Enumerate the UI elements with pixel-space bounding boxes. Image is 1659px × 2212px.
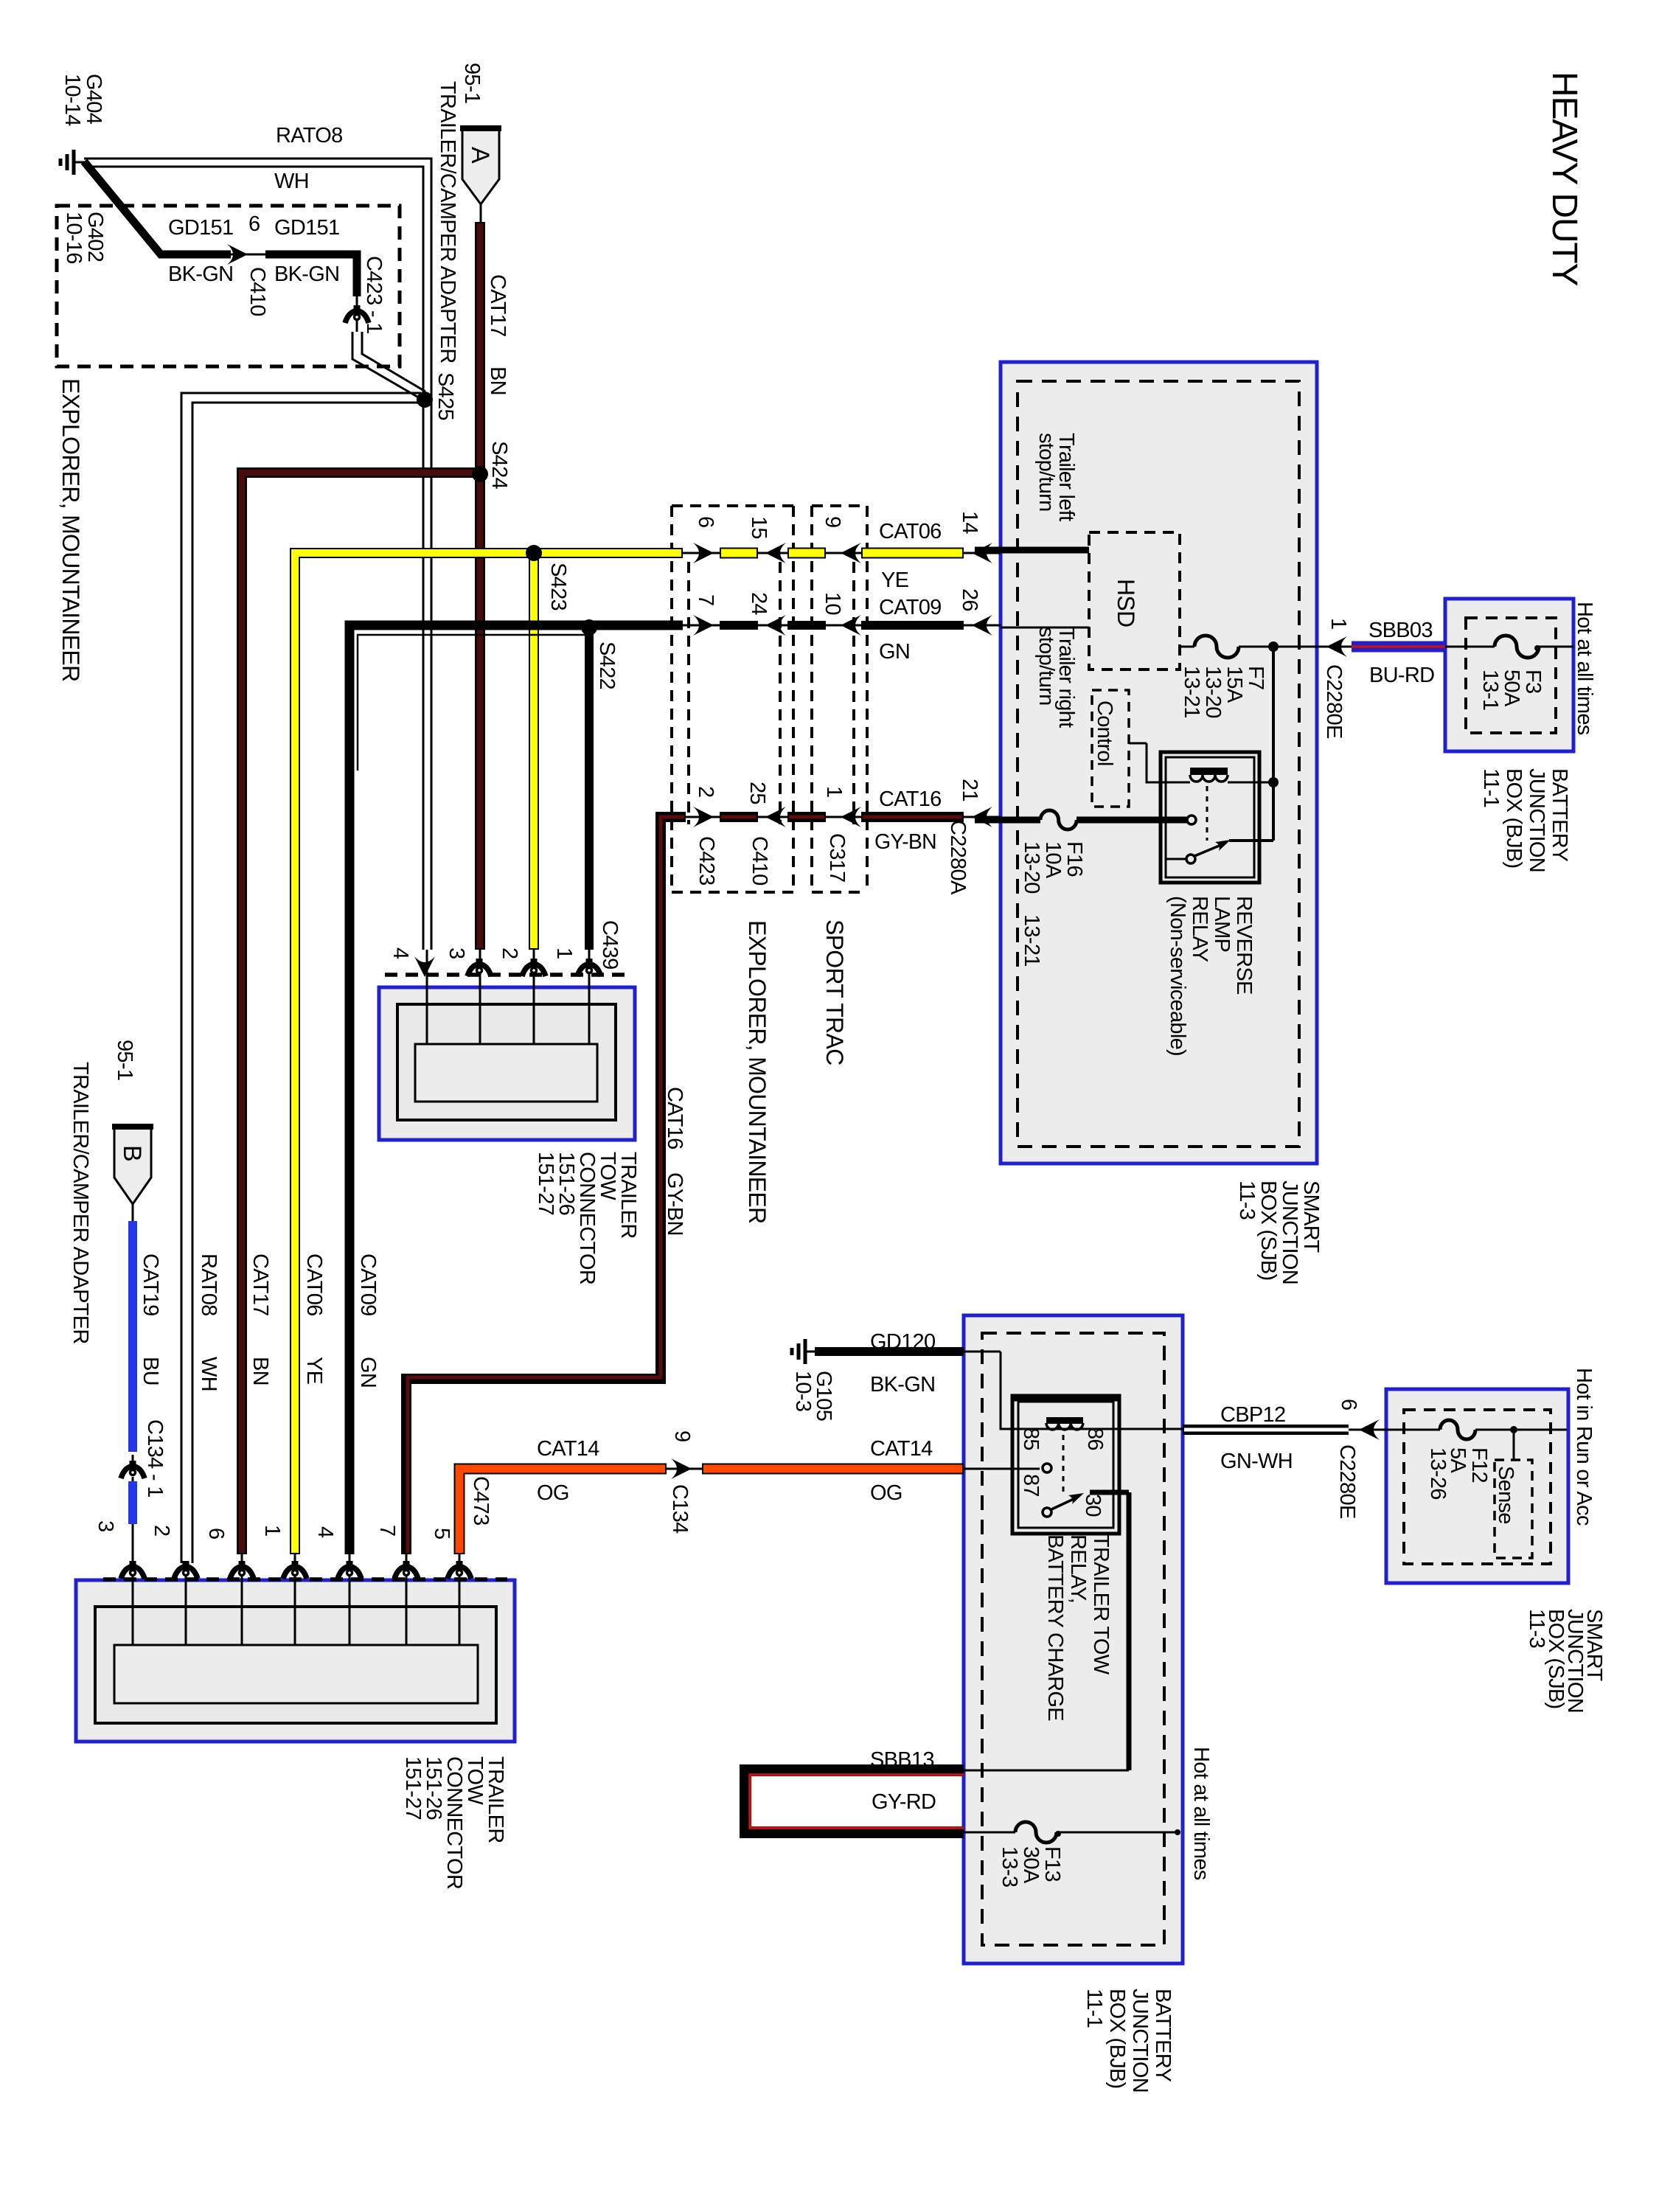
wire RAT08 WH branch from S425 to bottom pin 2 [181,393,422,1645]
svg-text:6: 6 [1337,1399,1360,1410]
wire to fuse F13 [964,1832,1178,1834]
svg-text:10A: 10A [1041,841,1065,879]
svg-text:5: 5 [430,1528,453,1539]
svg-text:S423: S423 [546,563,570,611]
svg-text:3: 3 [445,947,468,959]
svg-text:CAT14: CAT14 [870,1437,933,1461]
svg-text:G402: G402 [83,212,107,262]
wire CAT09 GN inline segments to SJB [683,625,1089,627]
svg-text:10-14: 10-14 [60,74,84,126]
svg-text:50A: 50A [1500,669,1523,707]
wire CAT06 YE horizontal and verticals [295,553,683,1645]
upper connector pin 2 hook [522,959,546,976]
svg-text:25: 25 [745,782,769,804]
wire CAT14 OG [459,1469,1040,1645]
svg-text:86: 86 [1083,1427,1107,1450]
fuse F7 15A [1194,636,1239,658]
svg-text:13-3: 13-3 [998,1846,1021,1887]
ground G404 [60,150,86,175]
svg-text:JUNCTION: JUNCTION [1128,1989,1152,2093]
trailer tow connector box (upper C439) [379,987,635,1140]
svg-text:BK-GN: BK-GN [168,262,233,286]
svg-text:GN: GN [356,1357,380,1388]
svg-text:F16: F16 [1062,841,1086,877]
svg-text:Control: Control [1093,700,1116,766]
svg-text:GY-BN: GY-BN [874,830,936,854]
svg-text:(Non-serviceable): (Non-serviceable) [1166,896,1189,1056]
SJB internal wiring F7 and bus [1129,647,1317,841]
svg-text:15A: 15A [1222,666,1246,703]
svg-text:10-3: 10-3 [791,1371,815,1411]
svg-text:6: 6 [248,212,260,236]
splice S424 [472,466,488,482]
svg-text:14: 14 [958,511,981,534]
junction node at F7 output [1268,641,1279,652]
svg-text:Hot at all times: Hot at all times [1189,1747,1213,1880]
svg-text:13-26: 13-26 [1426,1447,1450,1500]
splice S423 [526,545,542,561]
svg-text:C134: C134 [668,1484,692,1534]
svg-text:C317: C317 [825,833,849,883]
svg-text:151-27: 151-27 [401,1756,425,1820]
relay switch (battery charge) [1043,1435,1084,1517]
svg-text:F3: F3 [1521,669,1545,693]
svg-text:OG: OG [870,1481,902,1505]
wire CAT17 BN vertical from A to S424 to pin 3 [475,222,485,1044]
svg-text:BK-GN: BK-GN [274,262,339,286]
connector arrow GD151 C410 pin 6 [227,244,248,265]
svg-text:CAT16: CAT16 [879,787,942,811]
svg-text:Hot in Run or Acc: Hot in Run or Acc [1572,1368,1596,1526]
svg-text:REVERSE: REVERSE [1232,896,1256,995]
svg-text:B: B [118,1145,146,1161]
svg-text:2: 2 [150,1525,173,1536]
svg-text:EXPLORER, MOUNTAINEER: EXPLORER, MOUNTAINEER [744,920,771,1223]
trailer tow connector box (lower) [76,1580,515,1742]
svg-text:YE: YE [302,1357,326,1385]
wire CAT19 BU [128,1221,137,1645]
svg-text:S425: S425 [434,372,457,420]
svg-text:C439: C439 [598,920,622,970]
relay coil (reverse lamp) [1190,768,1228,782]
svg-text:YE: YE [881,568,909,592]
svg-text:EXPLORER, MOUNTAINEER: EXPLORER, MOUNTAINEER [58,378,84,681]
svg-text:C2280E: C2280E [1335,1444,1359,1519]
svg-text:stop/turn: stop/turn [1034,433,1058,512]
upper connector dashed pin line [385,973,633,977]
svg-text:87: 87 [1019,1474,1043,1497]
wire CBP12 GN-WH [1183,1425,1386,1435]
svg-text:S424: S424 [487,441,511,489]
svg-text:Hot at all times: Hot at all times [1573,602,1596,735]
svg-text:CBP12: CBP12 [1220,1403,1285,1427]
svg-text:RELAY: RELAY [1188,896,1211,962]
svg-text:95-1: 95-1 [460,63,484,103]
svg-text:24: 24 [747,592,771,615]
svg-text:13-1: 13-1 [1478,669,1502,710]
svg-text:13-20: 13-20 [1020,841,1043,894]
svg-text:F12: F12 [1467,1447,1491,1483]
svg-text:G404: G404 [82,74,105,125]
control dashed box [1092,690,1129,807]
svg-text:GD120: GD120 [870,1330,935,1354]
relay switch (reverse lamp) [1166,786,1231,863]
svg-text:BN: BN [486,366,509,395]
splice S425 [417,392,433,408]
svg-text:TRAILER/CAMPER ADAPTER: TRAILER/CAMPER ADAPTER [436,81,459,364]
arrow CBP12 pin 6 [1359,1419,1380,1440]
wire inside lower SJB with fuse F12 [1386,1430,1567,1460]
svg-text:F13: F13 [1040,1846,1064,1882]
svg-text:13-21: 13-21 [1180,666,1203,718]
smart junction box SJB (lower) [1386,1389,1568,1583]
wires from pins into upper connector [427,975,589,1044]
wires from pins into lower connector [133,1579,459,1645]
svg-text:SPORT TRAC: SPORT TRAC [821,919,848,1065]
svg-text:10-16: 10-16 [62,212,86,264]
trailer tow battery charge relay box [964,1315,1183,1964]
upper connector pin 3 hook [467,959,491,976]
HSD dashed box [1089,532,1180,669]
fuse F16 10A [1040,810,1077,829]
svg-text:LAMP: LAMP [1210,896,1234,952]
svg-text:BN: BN [248,1357,272,1385]
svg-text:CAT17: CAT17 [486,274,509,337]
svg-text:CAT06: CAT06 [879,520,942,543]
svg-text:JUNCTION: JUNCTION [1525,768,1548,872]
svg-text:C2280A: C2280A [946,820,970,895]
svg-text:BATTERY: BATTERY [1151,1989,1175,2082]
svg-text:2: 2 [694,786,717,797]
svg-text:CAT19: CAT19 [139,1253,162,1316]
svg-text:21: 21 [958,779,981,801]
svg-text:11-3: 11-3 [1235,1180,1259,1220]
inline connector arrows row CAT09 [693,615,714,636]
svg-text:GN-WH: GN-WH [1220,1450,1293,1473]
svg-text:CAT16: CAT16 [663,1087,686,1150]
svg-text:7: 7 [694,594,717,605]
wire relay 30 to SBB13 [964,1492,1129,1770]
svg-text:4: 4 [313,1526,337,1538]
svg-text:GY-RD: GY-RD [872,1790,936,1814]
svg-text:BOX (BJB): BOX (BJB) [1502,768,1526,869]
svg-text:26: 26 [958,588,981,611]
arrow SBB03 pin 1 [1326,636,1347,657]
svg-text:SBB03: SBB03 [1368,619,1433,642]
wire GD151 BK-GN [84,161,425,399]
svg-text:30A: 30A [1019,1846,1043,1884]
svg-text:13-20: 13-20 [1201,666,1225,718]
svg-text:SBB13: SBB13 [870,1748,934,1772]
inline connector dashed box C317 [812,506,867,892]
svg-text:RELAY,: RELAY, [1066,1534,1090,1603]
wire RAT08 WH from ground to S425 and pin 4 [84,159,431,1044]
svg-text:1: 1 [1326,618,1350,629]
svg-text:C423: C423 [695,836,718,886]
svg-text:GY-BN: GY-BN [663,1172,686,1236]
svg-text:BOX (SJB): BOX (SJB) [1256,1180,1280,1281]
svg-text:6: 6 [694,516,717,527]
svg-text:BOX (BJB): BOX (BJB) [1105,1989,1129,2089]
svg-text:C410: C410 [246,267,269,316]
wire CAT06 inside SJB to HSD [975,547,1089,554]
svg-text:TRAILER/CAMPER ADAPTER: TRAILER/CAMPER ADAPTER [69,1062,92,1344]
inline connector dashed box C423/C410 [672,506,793,892]
svg-text:BK-GN: BK-GN [870,1373,935,1397]
wire CAT16 GY-BN long path [406,817,686,1645]
fuse F12 5A [1440,1420,1475,1439]
svg-text:1: 1 [822,786,846,797]
lower connector dashed pin line [103,1577,507,1582]
svg-text:C423 - 1: C423 - 1 [362,256,386,334]
wire CAT09 GN horizontal and verticals [349,625,683,1645]
svg-text:13-21: 13-21 [1020,914,1043,967]
svg-text:WH: WH [197,1357,220,1391]
wire SBB13 GY-RD loop [745,1770,964,1832]
wire SBB03 BU-RD [1317,646,1445,648]
svg-text:BATTERY: BATTERY [1548,768,1571,862]
svg-text:BU: BU [139,1357,162,1385]
wire CAT16 inside SJB to F16 and relay [975,817,1189,824]
relay coil (battery charge) [1046,1417,1083,1430]
battery junction box BJB (upper) [1445,599,1573,751]
svg-text:Sense: Sense [1494,1466,1517,1524]
svg-text:11-1: 11-1 [1082,1989,1106,2028]
wire CAT16 GY-BN inline segments to SJB [686,816,1001,818]
svg-text:95-1: 95-1 [113,1040,136,1080]
wire CAT06 YE inline segments to SJB [683,552,1001,554]
relay battery charge box [1012,1396,1119,1534]
upper connector pin 4 arrow [414,956,435,977]
svg-text:30: 30 [1081,1494,1105,1517]
splice S422 [581,619,597,636]
svg-text:SMART: SMART [1299,1180,1323,1253]
wire CAT17 BN branch left to bottom pin 6 [242,473,480,1645]
svg-text:CAT09: CAT09 [356,1253,380,1316]
svg-text:GN: GN [879,640,910,664]
svg-text:GD151: GD151 [274,216,339,240]
svg-text:GD151: GD151 [168,216,233,240]
svg-text:TRAILER TOW: TRAILER TOW [1089,1534,1113,1675]
relay reverse lamp box [1161,752,1259,883]
svg-text:OG: OG [537,1481,569,1505]
sense dashed box [1495,1460,1532,1558]
svg-text:CAT17: CAT17 [248,1253,272,1316]
svg-text:RATO8: RATO8 [276,124,343,147]
svg-text:CAT06: CAT06 [302,1253,326,1316]
svg-text:CAT14: CAT14 [537,1437,599,1461]
svg-text:RAT08: RAT08 [197,1253,220,1316]
svg-text:stop/turn: stop/turn [1034,627,1058,706]
svg-text:4: 4 [389,947,412,959]
svg-text:WH: WH [274,170,309,193]
fuse F13 30A [1015,1822,1057,1843]
svg-text:2: 2 [498,947,521,959]
svg-text:HSD: HSD [1113,579,1139,627]
smart junction box SJB (upper) [1001,362,1317,1164]
wire GD120 BK-GN [815,1352,1183,1429]
svg-text:9: 9 [670,1430,694,1441]
svg-text:11-3: 11-3 [1525,1609,1548,1648]
svg-text:1: 1 [260,1525,284,1536]
svg-text:CAT09: CAT09 [879,596,942,619]
svg-text:BU-RD: BU-RD [1369,664,1434,687]
inline connector arrows row CAT06 [693,543,714,563]
connector arrow C134 pin 9 [671,1458,692,1479]
svg-text:3: 3 [94,1520,117,1531]
svg-text:C410: C410 [748,836,771,886]
svg-text:C134 - 1: C134 - 1 [143,1419,167,1498]
svg-text:C2280E: C2280E [1322,664,1346,739]
svg-text:7: 7 [375,1525,399,1536]
inline connector arrows row CAT16 [693,807,714,827]
inline connector hook C423-1 [345,305,369,323]
svg-text:F7: F7 [1244,666,1267,689]
lower connector pin hooks 3 2 6 1 4 7 5 [121,1561,145,1579]
svg-text:S422: S422 [595,641,619,689]
svg-text:9: 9 [821,516,844,527]
svg-text:11-1: 11-1 [1479,768,1503,807]
svg-text:85: 85 [1019,1427,1043,1450]
junction node sense [1510,1426,1517,1433]
ground G105 [792,1339,816,1364]
pennant B trailer/camper adapter [112,1126,153,1221]
svg-text:151-27: 151-27 [534,1152,557,1215]
svg-text:JUNCTION: JUNCTION [1278,1180,1301,1284]
svg-text:1: 1 [552,947,576,959]
svg-text:BATTERY CHARGE: BATTERY CHARGE [1043,1534,1067,1721]
junction node at relay coil [1268,777,1279,787]
inline connector hook C134-1 [121,1461,145,1478]
fuse F3 50A [1495,636,1539,658]
pennant A trailer/camper adapter [460,128,501,222]
dashed box G402 explorer mountaineer [57,206,400,366]
upper connector pin 1 hook [577,959,601,976]
svg-text:10: 10 [821,592,844,615]
svg-text:A: A [466,147,494,164]
svg-text:6: 6 [204,1528,228,1539]
svg-text:15: 15 [747,516,771,539]
svg-text:HEAVY DUTY: HEAVY DUTY [1545,72,1584,285]
svg-text:C473: C473 [469,1476,493,1526]
wire inside BJB with fuse F3 [1445,646,1573,648]
